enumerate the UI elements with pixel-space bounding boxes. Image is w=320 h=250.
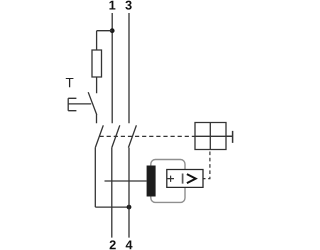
node: junction on line 4	[127, 205, 132, 210]
wire: test branch to line 4	[95, 206, 129, 208]
trip solenoid armature link	[226, 131, 233, 143]
wire: line 2 lower	[111, 148, 113, 238]
wire: resistor to test switch	[96, 77, 98, 93]
relay housing (rounded rectangle)	[151, 160, 185, 203]
wire: test branch lower	[94, 148, 96, 208]
wire: line 4 lower	[128, 148, 130, 238]
dashed link: solenoid to relay	[203, 152, 209, 179]
main contact blade (test pole)	[95, 125, 103, 147]
relay symbol: I bar	[182, 174, 184, 184]
main contact blade (pole 1-2)	[112, 125, 120, 147]
wire: test switch to main contact	[96, 114, 98, 123]
trip solenoid square	[195, 123, 226, 150]
terminal label 1	[109, 1, 115, 10]
test switch blade	[88, 92, 97, 115]
wire: test branch top	[97, 31, 113, 50]
mechanical linkage (dashed)	[99, 135, 195, 137]
push-button actuator (E symbol)	[68, 98, 91, 110]
trip solenoid cross	[195, 123, 226, 150]
main contact blade (pole 3-4)	[128, 125, 136, 147]
terminal label 4	[126, 240, 133, 249]
current transformer core (black bar)	[147, 166, 156, 197]
terminal label 2	[110, 240, 116, 249]
secondary winding wire	[104, 180, 146, 182]
relay symbol: input mark	[167, 176, 174, 182]
wire: line 1 upper	[111, 13, 113, 123]
differential relay box	[167, 170, 203, 188]
relay symbol: > (threshold)	[187, 174, 196, 183]
terminal label 3	[125, 1, 131, 10]
label T (test button)	[66, 78, 74, 87]
wire: line 3 upper	[128, 13, 130, 123]
node: test-branch tap on line 1	[110, 28, 115, 33]
resistor (test resistor)	[92, 50, 102, 77]
